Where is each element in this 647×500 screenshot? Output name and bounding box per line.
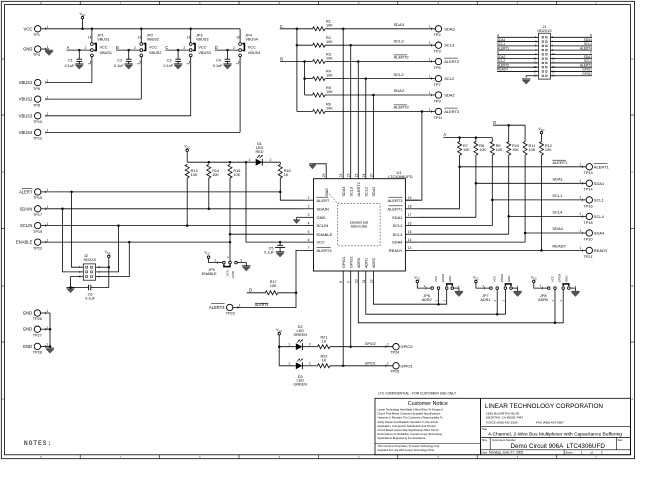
- svg-text:Verify Proper And Reliable Ope: Verify Proper And Reliable Operation In …: [378, 420, 439, 424]
- svg-text:D: D: [2, 57, 4, 61]
- svg-text:18: 18: [408, 205, 412, 209]
- ground at C3: [174, 63, 182, 65]
- wire JP7 pin 4 to ground: [512, 287, 517, 289]
- J1 pin 2 wire net D: [550, 36, 592, 38]
- svg-text:VBUS3: VBUS3: [196, 37, 208, 41]
- resistor R6 10K: [313, 110, 325, 114]
- svg-text:SDA4: SDA4: [594, 231, 605, 236]
- svg-text:SCL4: SCL4: [594, 214, 605, 219]
- svg-text:ALERT1: ALERT1: [594, 164, 610, 169]
- svg-text:1: 1: [249, 158, 251, 162]
- svg-text:Supplied For Use With Linear T: Supplied For Use With Linear Technology …: [378, 448, 435, 452]
- wire R10 column / U1 pin 15 to SCL4: [508, 155, 510, 234]
- svg-text:SCL4: SCL4: [392, 232, 403, 237]
- svg-text:VBUS4: VBUS4: [19, 130, 33, 135]
- svg-text:1: 1: [47, 95, 49, 99]
- svg-text:TP12: TP12: [33, 137, 42, 141]
- svg-text:1: 1: [288, 343, 290, 347]
- svg-text:GPIO1: GPIO1: [401, 363, 414, 368]
- svg-text:SDA2: SDA2: [394, 88, 405, 93]
- svg-text:TP10: TP10: [33, 120, 42, 124]
- svg-text:VCC: VCC: [493, 275, 497, 282]
- svg-text:VCC: VCC: [79, 12, 85, 17]
- svg-text:TP28: TP28: [33, 351, 42, 355]
- svg-text:Customer Notice: Customer Notice: [408, 401, 448, 407]
- svg-text:VBUS2: VBUS2: [149, 51, 161, 55]
- resistor R21 1K: [318, 345, 330, 349]
- svg-text:Demo Circuit 906A: Demo Circuit 906A: [511, 443, 565, 450]
- wire net ADR0: [358, 271, 563, 323]
- wire SDA2 to U1 pin 20: [372, 95, 374, 179]
- svg-text:VCC: VCC: [198, 46, 206, 50]
- svg-text:ENABLE: ENABLE: [317, 232, 333, 237]
- svg-text:VCC: VCC: [473, 276, 479, 281]
- svg-text:READY: READY: [389, 248, 403, 253]
- svg-text:1: 1: [288, 362, 290, 366]
- svg-text:1: 1: [187, 35, 189, 39]
- wire JP2 pin 3 to VBUS2: [140, 57, 142, 99]
- svg-text:Performance Or Reliability. Co: Performance Or Reliability. Contact Line…: [378, 432, 443, 436]
- svg-text:2: 2: [270, 158, 272, 162]
- svg-text:0.1uF: 0.1uF: [163, 64, 173, 68]
- svg-text:VCC: VCC: [538, 127, 544, 132]
- svg-text:C4: C4: [216, 59, 221, 63]
- U1 pin 13 READY: [405, 249, 418, 251]
- svg-text:VBUS2: VBUS2: [147, 37, 159, 41]
- svg-text:GND: GND: [23, 344, 32, 349]
- svg-text:1: 1: [239, 303, 241, 307]
- svg-text:VOICE (408) 432-1900: VOICE (408) 432-1900: [486, 420, 518, 424]
- wire R12 column / U1 pin 13 to READY: [541, 155, 543, 250]
- svg-text:TP5: TP5: [434, 66, 441, 70]
- svg-text:VBUS1: VBUS1: [100, 51, 112, 55]
- ground at JP7: [513, 290, 521, 292]
- power Vcc for R12: [540, 131, 543, 134]
- wire U1 GND pin to ground flag: [313, 164, 327, 179]
- svg-text:10K: 10K: [326, 24, 333, 28]
- svg-text:TP11: TP11: [434, 116, 443, 120]
- wire net ALERT4: [278, 292, 296, 294]
- wire R8 column / U1 pin 17 to SDA1: [475, 155, 477, 217]
- svg-text:TP4: TP4: [33, 53, 40, 57]
- test point TP15 ALERT: [22, 187, 33, 189]
- U1 pin 17 SDA1: [405, 216, 418, 218]
- svg-text:A: A: [443, 132, 446, 137]
- svg-text:SCL2: SCL2: [444, 76, 455, 81]
- ground at TP4: [45, 49, 53, 51]
- svg-text:ALERT2: ALERT2: [394, 55, 410, 60]
- svg-text:6: 6: [308, 238, 310, 242]
- svg-text:2: 2: [85, 46, 87, 50]
- wire D1 cathode to R16: [262, 161, 280, 163]
- svg-text:1: 1: [579, 196, 581, 200]
- svg-text:VCC: VCC: [149, 46, 157, 50]
- svg-text:10K: 10K: [212, 173, 219, 177]
- svg-text:TP2: TP2: [434, 33, 441, 37]
- svg-text:GND: GND: [565, 275, 569, 283]
- wire net ALERT: [46, 191, 280, 193]
- ground at C2: [125, 63, 133, 65]
- resistor R10 10K: [507, 142, 511, 156]
- svg-text:READY: READY: [552, 244, 566, 249]
- resistor R11 10K: [523, 142, 527, 156]
- svg-text:20: 20: [552, 74, 556, 78]
- svg-text:SDA1: SDA1: [552, 177, 563, 182]
- wire VCC rail: [46, 28, 240, 30]
- svg-text:VCC: VCC: [184, 145, 190, 150]
- wire net SDA2: [325, 94, 435, 96]
- wire R16 to ALERT net: [279, 178, 281, 192]
- svg-text:GND: GND: [23, 311, 32, 316]
- svg-text:ALERT1: ALERT1: [552, 160, 568, 165]
- svg-text:1: 1: [236, 35, 238, 39]
- svg-text:VBUS4: VBUS4: [245, 37, 257, 41]
- svg-text:Size: Size: [482, 438, 488, 442]
- svg-text:ALERT4: ALERT4: [255, 303, 269, 307]
- wire SDA3 to U1 pin 24: [342, 29, 344, 179]
- svg-text:TP17: TP17: [33, 213, 42, 217]
- svg-text:TP14: TP14: [584, 188, 593, 192]
- U1 pin 14 SDA4: [405, 241, 418, 243]
- svg-text:1: 1: [47, 79, 49, 83]
- svg-text:GND: GND: [23, 47, 32, 52]
- test point TP3 SCL3: [435, 42, 441, 48]
- svg-text:Monday, June 27, 2005: Monday, June 27, 2005: [489, 451, 523, 455]
- svg-text:GND: GND: [507, 275, 511, 283]
- U1 pin 2 SDAIN: [304, 208, 314, 210]
- resistor R13 10K: [185, 164, 189, 178]
- svg-text:VCC: VCC: [24, 26, 33, 31]
- J1 pin 15 wire net ALERT2: [497, 66, 538, 68]
- svg-text:TP21: TP21: [584, 255, 593, 259]
- svg-text:TP26: TP26: [33, 317, 42, 321]
- ground at JP8: [571, 290, 579, 292]
- title block: [481, 398, 631, 454]
- svg-text:VCC: VCC: [434, 275, 438, 282]
- svg-text:TP7: TP7: [434, 83, 441, 87]
- svg-text:16: 16: [408, 221, 412, 225]
- svg-text:Application. Component Substit: Application. Component Substitution And …: [378, 424, 436, 428]
- test point TP24 GPIO2: [393, 344, 399, 350]
- svg-text:TP1: TP1: [33, 33, 40, 37]
- svg-text:B: B: [2, 284, 4, 288]
- capacitor C6 0.1uF: [71, 287, 89, 289]
- jumper JP7 ADR1: [475, 280, 478, 283]
- resistor R1 10K: [313, 27, 325, 31]
- svg-text:VCC: VCC: [204, 251, 210, 256]
- svg-text:TP15: TP15: [33, 196, 42, 200]
- svg-text:1: 1: [429, 74, 431, 78]
- svg-text:1: 1: [88, 35, 90, 39]
- svg-text:TP3: TP3: [434, 50, 441, 54]
- J1 pin 16 wire net ALERT3: [550, 66, 592, 68]
- svg-text:19: 19: [533, 74, 537, 78]
- svg-text:1: 1: [579, 246, 581, 250]
- wire bus A to JP1 pin 2: [67, 49, 91, 51]
- svg-text:NOTES:: NOTES:: [24, 440, 52, 447]
- wire SCL2 to U1 pin 21: [365, 79, 367, 179]
- svg-text:C: C: [280, 24, 283, 29]
- wire Vcc to U1 VCC pin 6: [246, 162, 304, 242]
- test point TP7 SCL2: [435, 75, 441, 81]
- svg-text:1: 1: [47, 238, 49, 242]
- svg-text:22: 22: [354, 173, 358, 177]
- J1 pin 10 wire net C: [550, 53, 592, 55]
- svg-text:OPEN: OPEN: [500, 274, 504, 283]
- wire bus A to R7 R8 R9: [443, 137, 492, 139]
- svg-text:1: 1: [137, 63, 141, 65]
- svg-text:ADR1: ADR1: [364, 258, 368, 268]
- svg-text:1: 1: [87, 63, 91, 65]
- wire GND test points: [41, 312, 50, 314]
- svg-text:1: 1: [47, 222, 49, 226]
- svg-text:GND: GND: [325, 188, 329, 197]
- wire net ALERT3: [325, 111, 435, 113]
- svg-text:ALERT4: ALERT4: [317, 248, 333, 253]
- svg-text:7: 7: [308, 246, 310, 250]
- svg-text:Circuit That Meets Customer-Su: Circuit That Meets Customer-Supplied Spe…: [378, 412, 442, 416]
- jumper JP8 ADR0: [533, 280, 536, 283]
- svg-text:GND: GND: [23, 327, 32, 332]
- U1 pin 7 ALERT4: [304, 249, 314, 251]
- svg-text:1: 1: [579, 179, 581, 183]
- svg-text:GPIO2: GPIO2: [349, 256, 353, 268]
- svg-text:1: 1: [47, 45, 49, 49]
- wire R13 to SCLIN: [186, 178, 188, 226]
- svg-text:LTC CONFIDENTIAL - FOR CUSTOME: LTC CONFIDENTIAL - FOR CUSTOMER USE ONLY: [378, 392, 457, 396]
- svg-text:A: A: [632, 397, 634, 401]
- resistor R22 1K: [318, 364, 330, 368]
- svg-text:10K: 10K: [326, 56, 333, 60]
- customer notice box: [375, 398, 481, 454]
- wire bus D to R17: [247, 292, 266, 294]
- svg-text:SDA3: SDA3: [444, 26, 455, 31]
- svg-text:Title: Title: [482, 427, 488, 431]
- svg-text:VCC: VCC: [105, 250, 111, 255]
- capacitor C1: [78, 50, 80, 59]
- svg-text:RED: RED: [255, 150, 263, 154]
- wire bus C vertical: [280, 28, 313, 30]
- svg-text:GND: GND: [448, 275, 452, 283]
- svg-text:1: 1: [429, 107, 431, 111]
- svg-text:Document Number: Document Number: [492, 438, 516, 442]
- svg-text:VBUS3: VBUS3: [198, 51, 210, 55]
- wire bus D to R10 R11: [493, 124, 525, 126]
- U1 pin 18 ALERT1: [405, 208, 418, 210]
- op-amp U1 LTC4306UFD (bus multiplexer IC): [314, 179, 406, 271]
- J1 pin 18 wire net GPIO1: [550, 70, 592, 72]
- svg-text:TP19: TP19: [33, 230, 42, 234]
- svg-text:VBUS3: VBUS3: [19, 113, 33, 118]
- J1 pin 6 wire net SCL4: [550, 45, 592, 47]
- svg-text:15: 15: [408, 230, 412, 234]
- svg-text:A: A: [2, 397, 4, 401]
- test point TP11 ALERT3: [435, 108, 441, 114]
- svg-text:VCC: VCC: [100, 46, 108, 50]
- J1 pin 17 wire net READY: [497, 70, 538, 72]
- wire net ADR2: [373, 271, 446, 304]
- svg-text:20: 20: [369, 173, 373, 177]
- test point TP23 ALERT4: [211, 303, 224, 305]
- svg-text:ALERT: ALERT: [19, 189, 33, 194]
- resistor R2 10K: [313, 43, 325, 47]
- wire net ENABLE: [46, 241, 230, 243]
- svg-text:GPIO2: GPIO2: [401, 344, 414, 349]
- svg-text:GREEN: GREEN: [293, 333, 307, 337]
- svg-text:1: 1: [429, 25, 431, 29]
- svg-text:D: D: [249, 288, 252, 293]
- svg-text:GPIO1: GPIO1: [365, 361, 376, 365]
- svg-text:SDAIN: SDAIN: [317, 206, 329, 211]
- ground at JP5: [242, 265, 250, 267]
- svg-text:ALERT3: ALERT3: [387, 198, 403, 203]
- resistor R8 10K: [474, 142, 478, 156]
- resistor R17 10K: [265, 291, 277, 295]
- svg-text:SCL3: SCL3: [444, 43, 455, 48]
- svg-text:10K: 10K: [270, 284, 277, 288]
- svg-text:TP23: TP23: [226, 312, 235, 316]
- svg-text:TP9: TP9: [434, 99, 441, 103]
- ground flag at U1 pin 3 GND: [297, 216, 304, 218]
- wire bus D to JP4 pin 2: [215, 49, 239, 51]
- svg-text:TP6: TP6: [33, 87, 40, 91]
- capacitor C3: [177, 50, 179, 59]
- svg-text:SDA2: SDA2: [372, 187, 376, 197]
- J1 pin 13 wire net SCL2: [497, 62, 538, 64]
- wire bus B vertical: [280, 61, 312, 63]
- svg-text:10K: 10K: [512, 148, 519, 152]
- wire SCL3 to U1 pin 23: [350, 45, 352, 179]
- svg-text:D: D: [631, 57, 633, 61]
- wire net GPIO2: [330, 346, 393, 348]
- svg-text:5: 5: [308, 230, 310, 234]
- svg-text:OPEN: OPEN: [558, 274, 562, 283]
- svg-text:A: A: [67, 45, 70, 50]
- svg-text:SCL1: SCL1: [552, 193, 563, 198]
- test point TP5 ALERT2: [435, 58, 441, 64]
- wire ALERT2 to U1 pin 22: [357, 62, 359, 179]
- svg-text:TP22: TP22: [33, 246, 42, 250]
- wire net SDA3: [325, 28, 435, 30]
- svg-text:HD2X3: HD2X3: [84, 258, 96, 262]
- resistor R3 10K: [313, 60, 325, 64]
- ground at U1 GND pin: [309, 165, 316, 169]
- svg-text:C3: C3: [167, 59, 172, 63]
- svg-text:1: 1: [429, 57, 431, 61]
- J1 pin 14 wire net SCL3: [550, 62, 592, 64]
- svg-text:MILPITAS, CA 95035-7487: MILPITAS, CA 95035-7487: [486, 416, 523, 420]
- U1 exposed pad note: [338, 204, 380, 246]
- svg-text:13: 13: [408, 246, 412, 250]
- svg-text:1: 1: [387, 362, 389, 366]
- svg-text:bottom side: bottom side: [351, 225, 368, 229]
- svg-text:12: 12: [369, 279, 373, 283]
- svg-text:READY: READY: [497, 68, 509, 72]
- svg-text:SCLIN: SCLIN: [20, 223, 32, 228]
- svg-text:VCC: VCC: [248, 46, 256, 50]
- svg-text:TP20: TP20: [584, 237, 593, 241]
- svg-text:B: B: [632, 284, 634, 288]
- power Vcc for D2 D3: [278, 332, 281, 335]
- svg-text:ADR1: ADR1: [480, 298, 490, 302]
- svg-text:1: 1: [137, 35, 139, 39]
- svg-text:SDA3: SDA3: [342, 187, 346, 197]
- svg-text:VCC: VCC: [276, 328, 282, 333]
- svg-text:LTC4306UFD: LTC4306UFD: [567, 443, 606, 450]
- svg-text:ENABLE: ENABLE: [202, 272, 217, 276]
- svg-text:2: 2: [183, 46, 185, 50]
- svg-text:3: 3: [240, 259, 242, 263]
- svg-text:SCLIN: SCLIN: [317, 223, 329, 228]
- svg-text:FAX (408) 434-0507: FAX (408) 434-0507: [536, 420, 564, 424]
- svg-text:14: 14: [408, 238, 412, 242]
- test point TP13 ALERT1: [552, 159, 566, 161]
- J1 pin 11 wire net SDA2: [497, 58, 538, 60]
- svg-text:25: 25: [322, 173, 326, 177]
- resistor R4 10K: [313, 77, 325, 81]
- svg-text:SCL2: SCL2: [394, 72, 405, 77]
- svg-text:SDA1: SDA1: [594, 181, 605, 186]
- svg-text:VCC: VCC: [317, 240, 326, 245]
- svg-text:2: 2: [309, 362, 311, 366]
- U1 pin 6 VCC: [304, 241, 314, 243]
- svg-text:SCL2: SCL2: [364, 187, 368, 197]
- svg-text:1K: 1K: [322, 339, 327, 343]
- svg-text:0.1uF: 0.1uF: [85, 296, 95, 300]
- svg-text:10: 10: [354, 279, 358, 283]
- svg-text:1: 1: [387, 343, 389, 347]
- svg-text:1: 1: [429, 41, 431, 45]
- J1 pin 1 wire net A: [497, 36, 538, 38]
- svg-text:23: 23: [347, 173, 351, 177]
- svg-text:SCL3: SCL3: [394, 38, 405, 43]
- U1 pin 19 ALERT3: [405, 199, 418, 201]
- svg-text:1: 1: [46, 325, 48, 329]
- svg-text:SDA1: SDA1: [392, 215, 403, 220]
- svg-text:ALERT2: ALERT2: [444, 59, 460, 64]
- svg-text:17: 17: [408, 213, 412, 217]
- svg-text:1: 1: [214, 259, 216, 263]
- wire Vcc mid rail: [187, 161, 256, 163]
- svg-text:10K: 10K: [326, 40, 333, 44]
- svg-text:C1: C1: [68, 59, 73, 63]
- J1 pin 3 wire net SDA1: [497, 41, 538, 43]
- jumper JP6 ADR2: [416, 280, 419, 283]
- svg-text:Linear Technology Has Made A B: Linear Technology Has Made A Best Effort…: [378, 408, 443, 412]
- svg-text:10K: 10K: [479, 148, 486, 152]
- svg-text:C2: C2: [117, 59, 122, 63]
- svg-text:VBUS1: VBUS1: [97, 37, 109, 41]
- svg-text:C: C: [165, 45, 168, 50]
- svg-text:1: 1: [47, 112, 49, 116]
- ground at J1 pin 19: [522, 78, 530, 80]
- wire JP4 pin 3 to VBUS4: [239, 57, 241, 133]
- svg-text:2: 2: [134, 46, 136, 50]
- svg-text:ADR0: ADR0: [357, 258, 361, 268]
- svg-text:ALERT2: ALERT2: [357, 182, 361, 196]
- svg-text:10K: 10K: [529, 148, 536, 152]
- svg-text:2: 2: [233, 46, 235, 50]
- wire Vcc to LED anodes: [278, 345, 281, 348]
- svg-text:Circuit Board Layout May Signi: Circuit Board Layout May Significantly A…: [378, 428, 439, 432]
- svg-text:SDA2: SDA2: [444, 93, 455, 98]
- wire JP1 pin 3 to VBUS1: [91, 57, 93, 83]
- U1 pin 16 SCL1: [405, 225, 418, 227]
- svg-text:1K: 1K: [322, 359, 327, 363]
- wire bus C to JP3 pin 2: [165, 49, 189, 51]
- svg-text:ADR2: ADR2: [372, 258, 376, 268]
- ground at J2: [66, 287, 74, 289]
